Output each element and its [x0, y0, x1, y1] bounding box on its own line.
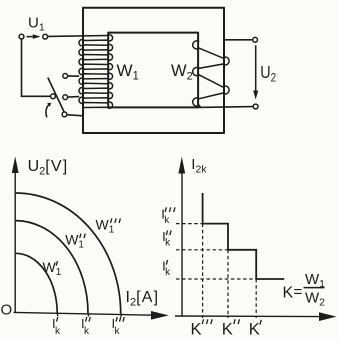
- label U2: [260, 64, 276, 85]
- curve W1''': [15, 193, 120, 314]
- dashed level Ik''': [176, 223, 203, 225]
- svg-text:K: K: [249, 321, 260, 339]
- curve W1': [15, 253, 57, 313]
- wire: input left terminal down: [22, 39, 51, 96]
- y axis I2k: [181, 165, 183, 316]
- winding W1 (primary, around left limb): [79, 35, 113, 116]
- curve end ticks: [57, 313, 121, 317]
- terminal (input left): [19, 34, 24, 39]
- x axis K: [175, 315, 322, 318]
- svg-text:=: =: [294, 284, 303, 301]
- curve W1'': [15, 221, 88, 314]
- switch pivot circle: [51, 94, 56, 99]
- arrow U1 (between input terminals): [27, 36, 35, 38]
- x axis I2: [14, 312, 154, 315]
- staircase curve: [203, 193, 285, 279]
- dashed level Ik'': [176, 249, 228, 251]
- svg-text:K: K: [283, 285, 294, 302]
- tap terminal top: [63, 74, 68, 79]
- winding W2 (secondary, around right limb): [193, 41, 229, 107]
- terminal (output top): [253, 37, 258, 42]
- wire tap top to winding: [68, 75, 80, 77]
- svg-text:O: O: [1, 302, 13, 319]
- tap terminal bottom: [62, 112, 67, 117]
- arrow U2 (output voltage): [255, 45, 257, 92]
- wire: W2 bottom to output terminal: [198, 106, 253, 109]
- wire tap middle to winding: [68, 96, 80, 99]
- dashed drop K''': [202, 224, 204, 318]
- wire tap bottom to winding: [67, 115, 83, 116]
- terminal (input right): [43, 34, 48, 39]
- wire: input right terminal to winding W1 top: [48, 35, 108, 38]
- transformer core inner rectangle (window): [108, 33, 198, 108]
- svg-text:U2[V]: U2[V]: [28, 158, 69, 178]
- dashed drop K': [255, 279, 257, 318]
- transformer core outer rectangle: [83, 8, 224, 133]
- terminal (output bottom): [253, 104, 258, 109]
- dashed level Ik': [176, 278, 256, 280]
- y axis U2: [14, 165, 16, 312]
- switch rotation arrow: [46, 105, 49, 118]
- wire: W2 top to output terminal: [224, 39, 253, 41]
- switch blade: [48, 78, 65, 114]
- tap terminal middle: [63, 95, 68, 100]
- svg-text:K: K: [191, 321, 202, 339]
- dashed drop K'': [227, 250, 229, 318]
- svg-text:K: K: [222, 321, 233, 339]
